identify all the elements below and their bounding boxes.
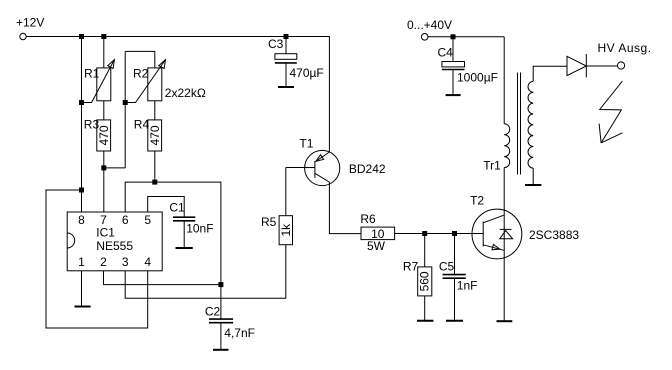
resistor R5 xyxy=(279,216,292,245)
wire R7 to ground xyxy=(424,296,426,321)
wire jog R3 bottom to R2 column xyxy=(104,167,125,169)
svg-text:C2: C2 xyxy=(205,304,221,318)
svg-text:C4: C4 xyxy=(438,46,454,60)
wire pin6 net to C2 xyxy=(125,182,221,319)
svg-text:2SC3883: 2SC3883 xyxy=(529,228,579,242)
wire secondary top to diode xyxy=(533,66,567,81)
svg-text:3: 3 xyxy=(122,255,129,269)
resistor R6 xyxy=(361,227,395,240)
wire pin1 to ground xyxy=(81,271,83,306)
svg-text:2x22kΩ: 2x22kΩ xyxy=(165,86,206,100)
wire R2 to R4 xyxy=(154,101,156,120)
svg-text:R6: R6 xyxy=(360,212,376,226)
svg-text:470: 470 xyxy=(148,125,162,145)
wire diode to HV terminal xyxy=(586,65,617,67)
potentiometer R1 xyxy=(82,60,115,103)
junction rail-R1top xyxy=(101,34,106,39)
svg-text:1nF: 1nF xyxy=(457,279,478,293)
junction pin2 net xyxy=(218,282,223,287)
wire 40V rail xyxy=(428,36,504,38)
wire T1 base to R5 xyxy=(286,167,315,169)
junction R4 bottom xyxy=(152,180,157,185)
wire secondary bottom to ground xyxy=(532,168,534,185)
spark arrow (lightning) xyxy=(599,81,622,143)
transformer Tr1 primary winding xyxy=(504,124,510,168)
terminal HV Ausg xyxy=(618,62,625,69)
svg-text:5W: 5W xyxy=(367,239,386,253)
svg-text:1: 1 xyxy=(78,255,85,269)
wire C1 to ground xyxy=(183,221,185,248)
ground C3 xyxy=(278,86,294,88)
junction R7 xyxy=(422,231,427,236)
svg-text:R5: R5 xyxy=(261,215,277,229)
svg-text:R2: R2 xyxy=(133,66,149,80)
svg-text:NE555: NE555 xyxy=(96,239,133,253)
wire R2 wiper column xyxy=(124,51,126,167)
svg-text:C1: C1 xyxy=(169,201,185,215)
junction C5 xyxy=(452,231,457,236)
resistor R7 xyxy=(418,267,432,296)
svg-text:IC1: IC1 xyxy=(96,226,115,240)
potentiometer R2 xyxy=(125,60,165,103)
ground T2 emitter xyxy=(497,320,513,322)
svg-text:4: 4 xyxy=(144,255,151,269)
ground Tr1 secondary xyxy=(525,184,541,186)
wire R6 to T2 base xyxy=(395,233,484,235)
svg-text:Tr1: Tr1 xyxy=(483,159,501,173)
wire rail to R1 top xyxy=(103,37,105,68)
svg-text:R1: R1 xyxy=(84,66,100,80)
resistor R4 xyxy=(148,120,162,151)
IC1 notch xyxy=(67,233,75,248)
capacitor C5 xyxy=(443,275,466,279)
junction rail-R1net xyxy=(79,34,84,39)
junction R3 bottom xyxy=(101,165,106,170)
svg-text:1k: 1k xyxy=(279,223,293,237)
capacitor C2 xyxy=(209,319,233,323)
wire rail to Tr1 primary xyxy=(503,37,505,124)
svg-text:T1: T1 xyxy=(299,136,313,150)
ground R7 xyxy=(417,320,433,322)
junction R1 wiper xyxy=(79,100,84,105)
diode D1 xyxy=(567,54,586,77)
wire rail to pin8 (left column) xyxy=(81,37,83,213)
svg-text:C3: C3 xyxy=(268,37,284,51)
wire R1 to R3 xyxy=(103,101,105,120)
wire pin3 output net to R5 xyxy=(125,245,286,299)
svg-text:BD242: BD242 xyxy=(349,162,386,176)
capacitor C4 (electrolytic) xyxy=(442,37,465,95)
ground pin1 xyxy=(75,306,91,308)
transistor T2 xyxy=(472,209,522,259)
svg-text:2: 2 xyxy=(100,255,107,269)
svg-text:1000µF: 1000µF xyxy=(457,71,498,85)
wire R4 bottom xyxy=(154,151,156,182)
junction rail-C4 xyxy=(451,34,456,39)
wire R5 top xyxy=(285,168,287,216)
wire R7 top xyxy=(424,234,426,267)
svg-text:C5: C5 xyxy=(439,259,455,273)
svg-text:+12V: +12V xyxy=(16,16,44,30)
svg-text:0...+40V: 0...+40V xyxy=(407,18,452,32)
transistor T1 xyxy=(305,150,361,233)
junction pin8 xyxy=(79,188,84,193)
transformer Tr1 core xyxy=(518,73,521,175)
svg-text:5: 5 xyxy=(144,213,151,227)
wire R2 top loop xyxy=(125,51,155,68)
wire pin2 net xyxy=(104,271,221,285)
ground C1 xyxy=(176,247,193,249)
svg-text:8: 8 xyxy=(78,213,85,227)
svg-text:HV Ausg.: HV Ausg. xyxy=(598,41,652,55)
wire C5 to ground xyxy=(454,278,456,320)
wire pin5 to C1 xyxy=(148,197,185,218)
wire C2 to ground xyxy=(220,323,222,350)
resistor R3 xyxy=(97,120,111,151)
svg-text:470: 470 xyxy=(97,125,111,145)
terminal +12V xyxy=(20,33,26,39)
transformer Tr1 secondary winding xyxy=(528,81,533,168)
T2 damper diode xyxy=(500,229,513,238)
capacitor C1 xyxy=(173,217,195,221)
svg-text:6: 6 xyxy=(122,213,129,227)
wire C5 top xyxy=(454,234,456,275)
ground C5 xyxy=(446,320,463,322)
svg-text:R7: R7 xyxy=(403,259,419,273)
svg-text:4,7nF: 4,7nF xyxy=(224,326,255,340)
wire primary to T2 collector and emitter to ground xyxy=(503,168,505,322)
junction rail-C3 xyxy=(284,34,289,39)
svg-text:7: 7 xyxy=(100,213,107,227)
wire pin4-pin8 bracket xyxy=(46,190,148,328)
op-amp IC1 box xyxy=(67,212,162,271)
terminal 0..+40V xyxy=(421,34,428,41)
wire R3 to pin 7 xyxy=(103,151,105,212)
svg-text:T2: T2 xyxy=(470,194,484,208)
svg-text:10nF: 10nF xyxy=(186,222,213,236)
junction R2 wiper xyxy=(123,100,128,105)
ground C2 xyxy=(213,349,229,351)
svg-text:560: 560 xyxy=(418,271,432,291)
wire +12V rail to T1 emitter xyxy=(26,37,329,153)
ground C4 xyxy=(446,94,461,96)
svg-text:470µF: 470µF xyxy=(290,66,324,80)
capacitor C3 (electrolytic) xyxy=(275,37,297,87)
